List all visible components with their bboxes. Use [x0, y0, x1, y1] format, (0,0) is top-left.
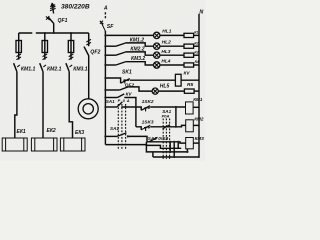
svg-text:QF2: QF2: [125, 82, 135, 88]
svg-text:1SK3: 1SK3: [142, 120, 154, 126]
svg-text:SA1: SA1: [106, 99, 115, 104]
svg-text:0: 0: [123, 98, 126, 103]
svg-text:1SK2: 1SK2: [142, 99, 154, 105]
svg-text:А: А: [103, 6, 108, 12]
svg-text:ЕК2: ЕК2: [47, 128, 56, 134]
svg-text:SF: SF: [107, 24, 114, 30]
svg-text:КМ1.2: КМ1.2: [130, 37, 144, 43]
svg-text:R3: R3: [194, 50, 198, 54]
svg-text:КМ1.1: КМ1.1: [21, 66, 36, 72]
svg-text:КV: КV: [184, 71, 191, 76]
svg-text:HL5: HL5: [160, 84, 170, 90]
svg-text:R5: R5: [187, 82, 193, 88]
svg-text:Р0А: Р0А: [162, 113, 170, 118]
svg-text:R4: R4: [195, 60, 199, 64]
svg-text:КV: КV: [126, 91, 133, 96]
svg-text:SA2 0!КЗ: SA2 0!КЗ: [148, 136, 168, 141]
svg-text:ЕК3: ЕК3: [75, 130, 84, 136]
svg-text:QF1: QF1: [58, 18, 68, 24]
svg-text:HL4: HL4: [161, 59, 170, 65]
svg-text:R1: R1: [194, 31, 198, 35]
svg-text:Р: Р: [118, 98, 121, 103]
svg-text:SK1: SK1: [122, 70, 132, 76]
svg-text:КМ3.2: КМ3.2: [131, 56, 145, 62]
svg-text:КМ3: КМ3: [195, 136, 205, 141]
svg-text:ЕК1: ЕК1: [17, 129, 26, 135]
svg-text:А: А: [126, 98, 130, 103]
svg-text:HL1: HL1: [162, 29, 171, 35]
svg-text:КМ2.2: КМ2.2: [130, 46, 144, 52]
svg-text:КМ2.1: КМ2.1: [47, 66, 62, 72]
svg-text:QF2: QF2: [90, 49, 100, 55]
svg-text:N: N: [199, 9, 203, 15]
svg-text:SA1: SA1: [110, 126, 119, 131]
svg-text:КМ1: КМ1: [193, 97, 203, 102]
svg-text:КМ3.1: КМ3.1: [73, 66, 88, 72]
svg-text:HL3: HL3: [161, 49, 170, 55]
svg-text:КМ2: КМ2: [194, 116, 204, 121]
svg-text:HL2: HL2: [162, 40, 171, 46]
svg-text:R2: R2: [194, 41, 198, 45]
svg-text:380/220В: 380/220В: [61, 4, 90, 11]
